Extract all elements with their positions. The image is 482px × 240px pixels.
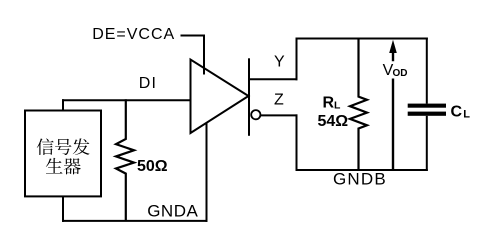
label Y [274,54,285,71]
svg-text:50Ω: 50Ω [137,158,168,175]
wire driver bottom stub to GNDA rail [206,123,208,222]
wire signal-generator top stub [62,99,64,110]
svg-text:L: L [334,100,341,112]
capacitor CL bottom plate [408,112,446,116]
signal generator box [25,111,101,197]
label VOD [383,62,408,79]
driver U1 (line driver triangle) [191,60,249,134]
svg-text:54Ω: 54Ω [318,113,349,130]
wire CL top lead (right rail upper) [426,38,428,104]
wire GNDB bottom rail [296,169,428,171]
wire driver-enable from DE=VCCA label to driver top edge [181,36,205,75]
svg-text:C: C [451,104,463,121]
svg-text:GNDB: GNDB [333,170,387,189]
svg-text:Y: Y [274,54,285,71]
label DI [139,75,157,92]
capacitor CL top plate [408,104,446,108]
VOD measurement arrow [389,40,397,170]
inverter bubble on Z output [251,110,260,119]
label GNDA [147,202,198,221]
wire Z branch down to bottom rail [296,114,298,171]
svg-text:GNDA: GNDA [147,202,198,221]
label DE=VCCA [92,26,175,43]
label RL [323,94,342,111]
label 50Ω [137,158,168,175]
wire CL bottom lead (right rail lower) [426,116,428,171]
svg-text:DI: DI [139,75,157,92]
label 信号发生器 (signal generator) [37,138,90,174]
resistor RL 54 ohm [350,38,367,171]
label CL [451,104,471,121]
svg-text:Z: Z [274,92,284,109]
label 54Ω [318,113,349,130]
svg-text:OD: OD [393,68,408,79]
wire signal-generator bottom stub [62,196,64,222]
label Z [274,92,284,109]
wire driver output bus [248,58,250,136]
resistor 50 ohm [116,99,134,221]
wire top rail (Y net) [296,38,428,40]
wire Y branch up to top rail [296,38,298,81]
svg-text:R: R [323,94,335,111]
wire Z output [260,114,297,116]
svg-text:L: L [463,109,470,121]
wire GNDA bottom rail [62,220,208,222]
label GNDB [333,170,387,189]
svg-text:DE=VCCA: DE=VCCA [92,26,175,43]
wire DI input net [62,99,191,101]
wire Y output [248,78,298,80]
